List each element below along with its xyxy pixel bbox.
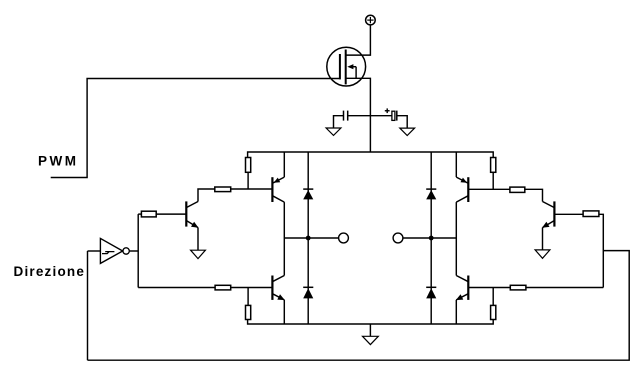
node junction dot left xyxy=(306,236,311,241)
wire - Direzione input vertical xyxy=(87,251,89,360)
ground - C1 xyxy=(326,128,341,135)
wire - top rail xyxy=(248,152,494,158)
wire - left output xyxy=(284,237,338,239)
diode D2 (upper right flyback) xyxy=(430,152,432,238)
ground - bridge xyxy=(369,324,371,336)
svg-text:PWM: PWM xyxy=(38,154,79,169)
wire - decoupling branch left xyxy=(334,116,344,128)
wire - R10 to control node xyxy=(526,287,603,289)
diode D4 (lower right flyback) xyxy=(430,238,432,324)
resistor R8 (Q3 base feed) xyxy=(510,187,525,192)
diode D1 (upper left flyback) xyxy=(307,152,309,238)
resistor R1 (left pull-up) xyxy=(246,158,251,173)
resistor R2 (right pull-up) xyxy=(491,158,496,173)
positive supply terminal xyxy=(366,15,376,25)
diode D3 (lower left flyback) xyxy=(307,238,309,324)
wire - upper branch from node xyxy=(138,213,141,215)
wire - right output xyxy=(403,237,456,239)
ground - Q7 xyxy=(535,250,550,258)
node junction dot right xyxy=(429,236,434,241)
wire - drain to supply xyxy=(346,25,371,55)
wire - base node to R4 xyxy=(247,288,249,306)
ground - Q6 xyxy=(191,250,206,258)
resistor R3 (Q2 base feed) xyxy=(215,187,231,192)
wire - R7 to Q6 base xyxy=(156,213,186,215)
transistor Q2 (PNP, high-side left) xyxy=(271,177,273,202)
wire - R2 to base node xyxy=(492,172,494,189)
wire - inverter output xyxy=(129,250,138,252)
transistor Q4 (NPN, low-side left) xyxy=(271,276,273,300)
wire - Q7 collector to branch xyxy=(525,189,543,201)
wire - upper left base branch xyxy=(231,188,272,190)
wire - MOSFET source to rail xyxy=(346,78,371,152)
terminal OUT-A xyxy=(339,233,349,243)
svg-text:Direzione: Direzione xyxy=(14,264,86,279)
wire - inverter input xyxy=(88,250,101,252)
wire - inverter output node vertical xyxy=(137,214,139,287)
wire - R9 to control node xyxy=(599,214,603,287)
resistor R9 (Q7 base) xyxy=(583,211,599,217)
MOSFET Q1 (P-channel, high-side switch) xyxy=(327,47,366,86)
wire - Q6 emitter to ground xyxy=(197,228,199,251)
wire - decoupling branch right xyxy=(397,116,407,128)
ground - C2 xyxy=(400,128,415,135)
wire - lower right base branch xyxy=(468,287,510,289)
wire - R3 to Q6 collector xyxy=(198,189,215,202)
wire - base node to R5 xyxy=(492,288,494,306)
resistor R5 (right pull-down) xyxy=(491,305,496,319)
wire - bottom rail xyxy=(248,320,494,325)
transistor Q5 (NPN, low-side right) xyxy=(467,276,469,300)
wire - PWM gate line xyxy=(51,79,340,178)
resistor R10 (Q5 base feed) xyxy=(510,285,526,290)
resistor R4 (left pull-down) xyxy=(246,305,251,319)
wire - Q7 base to R9 xyxy=(554,213,583,215)
capacitor C1 xyxy=(343,111,345,121)
capacitor C2 (electrolytic, + mark) xyxy=(392,111,395,120)
wire - inverter node to R6 xyxy=(138,287,215,289)
wire - lower left base branch xyxy=(231,287,272,289)
transistor Q3 (PNP, high-side right) xyxy=(467,177,469,202)
wire - R1 to base node xyxy=(247,172,249,189)
resistor R7 (Q6 base) xyxy=(141,211,156,217)
inverter U1 (Schmitt trigger) xyxy=(100,238,122,263)
terminal OUT-B xyxy=(393,233,403,243)
wire - bottom feedback xyxy=(88,251,630,361)
resistor R6 (Q4 base feed) xyxy=(215,285,231,290)
wire - decoupling branch middle xyxy=(348,115,392,117)
transistor Q7 (NPN, right driver) xyxy=(553,201,555,226)
transistor Q6 (NPN, left driver) xyxy=(185,201,187,226)
wire - Q7 emitter to ground xyxy=(542,228,544,250)
wire - upper right base branch xyxy=(468,188,510,190)
